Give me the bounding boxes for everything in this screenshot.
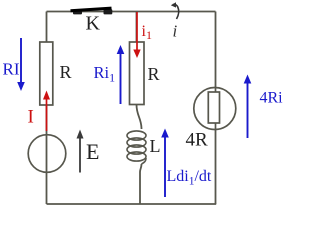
svg-text:RI: RI	[3, 60, 20, 79]
svg-text:i: i	[173, 22, 178, 41]
svg-text:E: E	[86, 139, 99, 164]
svg-text:I: I	[28, 107, 34, 128]
svg-text:R: R	[148, 64, 160, 84]
svg-text:K: K	[86, 13, 101, 35]
svg-text:4Ri: 4Ri	[260, 90, 284, 107]
svg-text:L: L	[150, 136, 161, 156]
svg-text:4R: 4R	[186, 130, 209, 151]
svg-text:R: R	[60, 62, 72, 82]
